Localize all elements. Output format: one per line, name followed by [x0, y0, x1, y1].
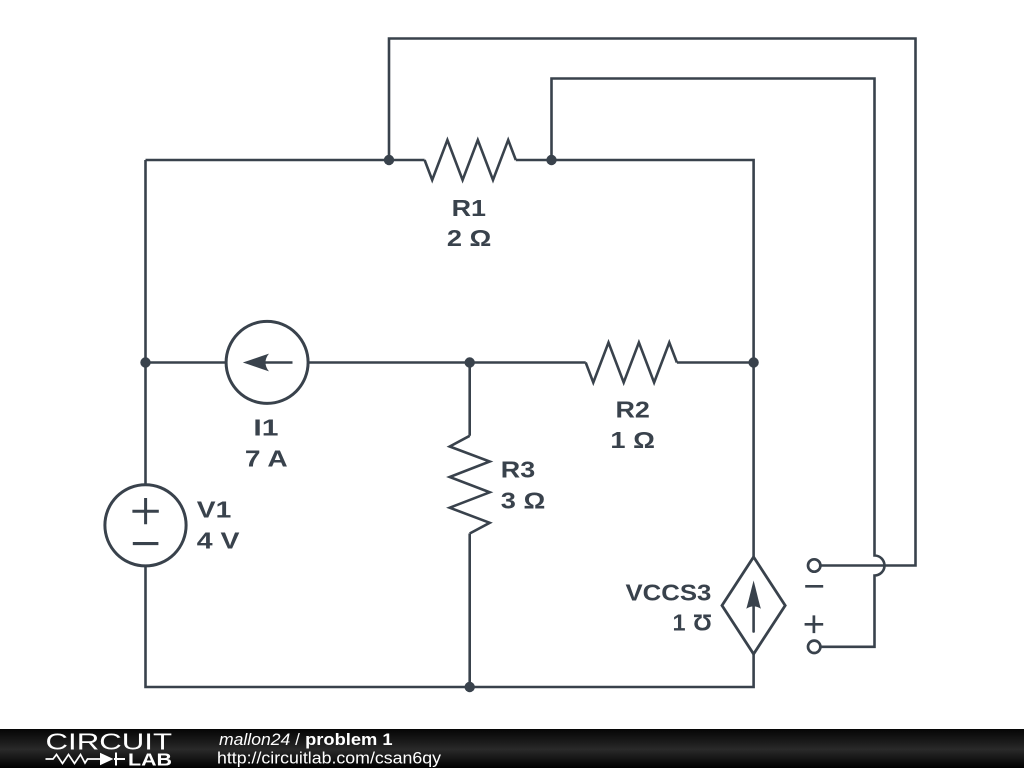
dependent source VCCS3	[722, 557, 785, 654]
voltage source V1	[105, 485, 186, 566]
wire	[144, 160, 147, 485]
wire	[389, 39, 916, 566]
wire	[146, 159, 425, 162]
resistor R2	[586, 343, 677, 383]
label plus	[805, 615, 824, 633]
resistor R3	[450, 436, 490, 534]
terminal minus	[808, 559, 820, 571]
wire	[677, 361, 754, 364]
terminal plus	[808, 641, 820, 653]
wire	[146, 361, 227, 364]
svg-text:mallon24: mallon24	[219, 730, 290, 749]
node D	[465, 357, 475, 367]
current source I1	[226, 321, 308, 403]
wire	[146, 566, 754, 687]
svg-text:problem 1: problem 1	[305, 730, 393, 749]
node A	[384, 155, 394, 165]
wire	[552, 79, 885, 647]
node B	[546, 155, 556, 165]
logo resistor-diode glyph	[46, 755, 101, 764]
wire	[752, 363, 755, 558]
wire	[468, 534, 471, 688]
svg-text:http://circuitlab.com/csan6qy: http://circuitlab.com/csan6qy	[217, 749, 442, 768]
wire	[516, 160, 754, 363]
footer bar	[0, 729, 1024, 768]
svg-text:/: /	[295, 730, 300, 749]
node F	[465, 682, 475, 692]
node C	[140, 357, 150, 367]
resistor R1	[425, 140, 516, 180]
svg-text:LAB: LAB	[128, 749, 172, 768]
wire	[468, 363, 471, 436]
node E	[748, 357, 758, 367]
wire	[308, 361, 586, 364]
label minus	[805, 585, 823, 588]
